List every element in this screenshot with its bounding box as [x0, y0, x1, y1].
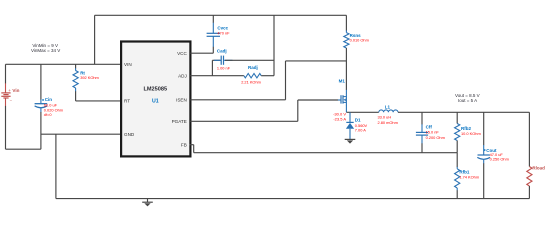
- svg-text:Iout = 5 A: Iout = 5 A: [458, 98, 477, 103]
- capacitor Cadj: [212, 48, 274, 75]
- wire VIN horizontal to U1: [6, 63, 121, 65]
- svg-text:LM25085: LM25085: [143, 86, 167, 92]
- svg-text:VinMax = 34 V: VinMax = 34 V: [31, 48, 60, 53]
- wire RT pin: [76, 100, 121, 102]
- wire PGATE to gate: [298, 99, 338, 101]
- wire ISEN riser: [285, 61, 287, 100]
- resistor Rt: [73, 64, 99, 101]
- svg-text:Cin: Cin: [45, 97, 53, 102]
- svg-text:Radj: Radj: [248, 65, 258, 70]
- svg-text:15.0 nF: 15.0 nF: [426, 129, 440, 134]
- wire SW node to L1: [346, 111, 378, 113]
- svg-text:L1: L1: [385, 104, 391, 109]
- capacitor Cin: [35, 64, 63, 149]
- wire VCC pin: [190, 52, 213, 54]
- svg-text:7.00 A: 7.00 A: [355, 128, 366, 133]
- svg-text:10.0 KOhm: 10.0 KOhm: [461, 131, 481, 136]
- svg-text:D1: D1: [355, 117, 361, 122]
- resistor Rsns: [344, 15, 369, 95]
- resistor Rload: [527, 112, 545, 198]
- svg-text:ISEN: ISEN: [176, 97, 187, 102]
- wire top VIN rail: [95, 14, 347, 16]
- svg-text:Vin: Vin: [12, 88, 19, 93]
- wire FB pin: [190, 144, 194, 146]
- transistor M1 (PMOS): [333, 79, 346, 122]
- svg-text:GND: GND: [124, 132, 135, 137]
- svg-text:0.200 Ohm: 0.200 Ohm: [426, 135, 445, 140]
- wire Vout rail: [398, 111, 529, 113]
- capacitor Cout: [477, 112, 509, 198]
- svg-text:df=0: df=0: [44, 112, 53, 117]
- svg-text:FB: FB: [181, 142, 187, 147]
- svg-text:VIN: VIN: [124, 62, 132, 67]
- svg-text:1.00 nF: 1.00 nF: [217, 66, 231, 71]
- svg-text:Cadj: Cadj: [217, 48, 227, 53]
- resistor Rfb1: [455, 153, 479, 199]
- voltage source Vin: [1, 64, 19, 149]
- svg-text:ADJ: ADJ: [178, 74, 187, 79]
- op-amp U1 LM25085 controller: [121, 42, 190, 157]
- wire PGATE riser: [297, 100, 299, 121]
- svg-text:RT: RT: [124, 99, 130, 104]
- ground under D1: [345, 139, 356, 143]
- svg-text:VCC: VCC: [177, 51, 187, 56]
- svg-text:M1: M1: [339, 79, 346, 84]
- svg-text:U1: U1: [152, 99, 159, 105]
- wire gnd drop: [55, 134, 57, 198]
- svg-text:+: +: [8, 88, 11, 93]
- wire ISEN to Rsns bottom: [286, 60, 347, 62]
- svg-text:0.250 Ohm: 0.250 Ohm: [490, 156, 509, 161]
- svg-text:PGATE: PGATE: [172, 119, 187, 124]
- wire ISEN pin: [190, 99, 285, 101]
- svg-text:-23.5 A: -23.5 A: [333, 117, 346, 122]
- wire ADJ pin: [190, 75, 244, 77]
- capacitor Cvcc: [207, 15, 231, 53]
- wire GND pin to Cin branch: [41, 133, 121, 135]
- svg-text:33.0 uH: 33.0 uH: [378, 115, 392, 120]
- svg-text:470 nF: 470 nF: [217, 31, 230, 36]
- wire bottom ground rail: [56, 198, 530, 200]
- resistor Radj: [241, 65, 261, 84]
- svg-text:2.21 KOhm: 2.21 KOhm: [241, 79, 261, 84]
- inductor L1: [378, 104, 398, 125]
- wire left drop from top rail to VIN node: [94, 15, 96, 64]
- resistor Rfb2: [455, 112, 481, 152]
- diode D1: [346, 112, 368, 139]
- wire Radj to VIN riser: [261, 75, 274, 77]
- svg-text:392 KOhm: 392 KOhm: [80, 75, 99, 80]
- svg-text:1.74 KOhm: 1.74 KOhm: [459, 174, 479, 179]
- wire Vin bottom return: [6, 148, 41, 150]
- svg-text:0.010 Ohm: 0.010 Ohm: [350, 38, 369, 43]
- svg-text:2.80 mOhm: 2.80 mOhm: [378, 120, 398, 125]
- ground symbol on bottom rail: [142, 199, 153, 207]
- wire VIN riser for Radj/Cadj: [273, 15, 275, 75]
- wire PGATE pin: [190, 120, 298, 122]
- capacitor Cff: [416, 112, 445, 152]
- svg-text:Rload: Rload: [532, 166, 545, 171]
